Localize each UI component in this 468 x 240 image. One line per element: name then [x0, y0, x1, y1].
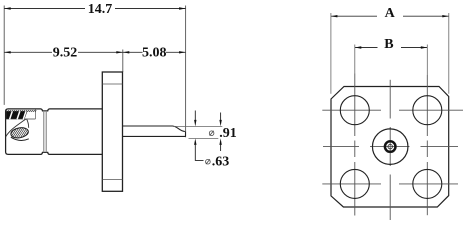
center pin circle: [388, 144, 393, 149]
connector body outline (nut + barrel with groove waist): [6, 109, 103, 154]
main vertical centerline (x=390.2): [389, 80, 391, 220]
mounting hole bottom-left: [340, 169, 369, 198]
svg-text:A: A: [385, 6, 396, 21]
center contact ring outer: [384, 141, 396, 153]
extension line middle at flange face (x=123): [122, 50, 124, 73]
main horizontal centerline (y=146.6): [323, 146, 458, 148]
svg-text:.63: .63: [212, 154, 230, 169]
dimension 9.52 line: [4, 51, 123, 53]
knurl band bottom boundary line: [6, 118, 36, 120]
dimension 14.7 arrows: [4, 7, 11, 9]
dia .63 arrow pair (x=195.3): [194, 111, 196, 122]
groove interior lines: [42, 111, 44, 152]
dia .91 arrow pair (x=220.6): [220, 113, 222, 122]
pin bottom edge: [123, 135, 186, 137]
dimension 14.7 line: [4, 8, 185, 10]
pin tip face: [185, 132, 187, 137]
dia symbol for .63: [206, 159, 211, 164]
centerline vertical through right holes (x=427): [426, 75, 428, 215]
svg-text:.91: .91: [219, 126, 237, 141]
dia symbol for .91: [209, 131, 214, 136]
sectioned contact oval (hatched): [10, 126, 29, 139]
pin top edge with taper: [123, 126, 185, 132]
flange chamfer line top: [102, 83, 122, 85]
center contact ring thick: [385, 142, 395, 152]
knurl band right boundary: [34, 109, 36, 119]
centerline horizontal through top holes (y=109): [322, 109, 463, 111]
cutaway break line in nut: [6, 119, 26, 137]
flange (side view): [102, 72, 122, 191]
mounting hole top-left: [340, 96, 369, 125]
dimension 5.08 arrows: [123, 51, 130, 53]
dimension 9.52 arrows: [4, 51, 11, 53]
extension line left (x=4.2): [3, 6, 5, 105]
dimension A line: [331, 15, 449, 17]
mounting hole bottom-right: [413, 169, 442, 198]
centerline vertical through left holes (x=355): [354, 74, 356, 216]
flange chamfer line bottom: [102, 178, 122, 180]
A extension lines: [330, 13, 332, 94]
center interface outer circle: [372, 129, 408, 165]
svg-text:9.52: 9.52: [53, 46, 78, 61]
svg-text:5.08: 5.08: [142, 46, 167, 61]
knurl zebra band: [6, 111, 27, 119]
knurl serration sawtooth under body top edge: [6, 110, 36, 111]
mounting hole top-right: [413, 96, 442, 125]
dimension 5.08 line: [123, 51, 186, 53]
dia .91 top extension line: [174, 125, 222, 127]
svg-text:14.7: 14.7: [88, 2, 113, 17]
svg-text:B: B: [384, 37, 393, 52]
dimension B line: [355, 47, 428, 49]
extension line right at pin tip (x=185.6): [185, 6, 187, 138]
centerline horizontal through bottom holes (y=184.4): [322, 183, 458, 185]
dia .63 leader: [195, 144, 203, 160]
dia .91 bottom extension line: [189, 137, 219, 139]
crescent lip below oval: [11, 137, 29, 140]
flange face octagon outline: [331, 87, 449, 208]
B extension lines: [354, 45, 356, 74]
